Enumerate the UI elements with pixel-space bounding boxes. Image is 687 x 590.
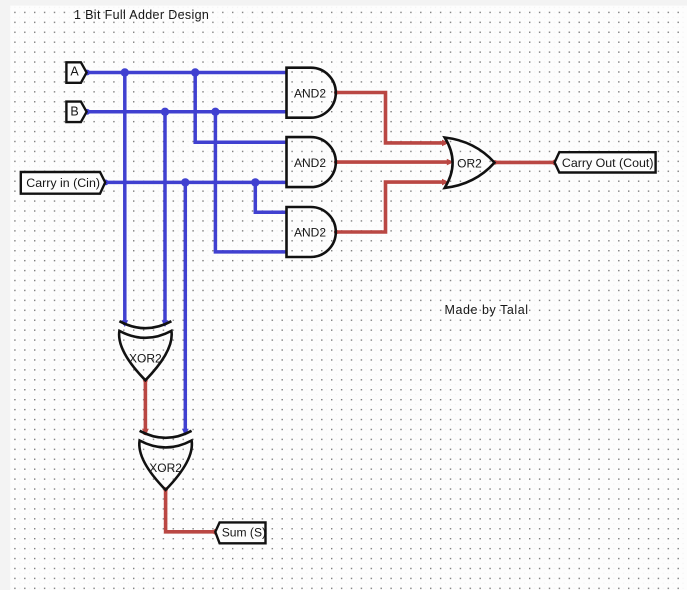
output flag Sum (S) bbox=[215, 522, 266, 543]
and-gate U2 AND2 (middle) bbox=[287, 137, 336, 187]
pin dot at flag Sum connection bbox=[213, 529, 219, 535]
svg-text:AND2: AND2 bbox=[294, 156, 326, 170]
and-gate U1 AND2 (top) bbox=[287, 68, 336, 118]
output flag Carry Out (Cout) bbox=[555, 152, 656, 172]
xor-gate U5 XOR2 (upper, pointing down) bbox=[119, 321, 172, 380]
pin dot at flag A connection bbox=[84, 70, 90, 76]
wire net A branch: junction down and right to AND2 gate U2 input 1 bbox=[195, 73, 286, 143]
arrowhead OR2 U4 input 1 bbox=[442, 140, 449, 147]
svg-text:XOR2: XOR2 bbox=[129, 352, 162, 366]
arrowhead XOR2 U5 input 1 bbox=[121, 320, 128, 327]
wire net Cin horizontal: flag Carry in to AND2 gate U2 input 2 bbox=[105, 181, 286, 185]
arrowhead XOR2 U5 input 2 bbox=[162, 320, 169, 327]
wire net B branch: junction to XOR2 gate U5 input 2 bbox=[163, 112, 167, 325]
pin dot at U3 output bbox=[334, 230, 339, 235]
arrowhead OR2 U4 input 2 bbox=[447, 159, 454, 166]
pin dot at U1 output bbox=[334, 90, 339, 95]
pin dot at flag Carry in connection bbox=[103, 180, 109, 186]
or-gate U4 OR2 bbox=[445, 138, 495, 188]
pin dot at U4 output bbox=[493, 160, 498, 165]
svg-text:1 Bit Full Adder Design: 1 Bit Full Adder Design bbox=[74, 8, 209, 22]
pin dot at U2 output bbox=[334, 160, 339, 165]
junction net Cin at vertical to XOR2 U6 bbox=[181, 178, 189, 186]
wire U2 AND2 output to OR2 U4 input 2 bbox=[336, 160, 451, 164]
wire XOR2 U6 output to flag Sum (S) bbox=[166, 489, 216, 532]
wire U3 AND2 output to OR2 U4 input 3 bbox=[336, 182, 446, 232]
junction net B at vertical to AND2 U3 bbox=[211, 108, 219, 116]
arrowhead XOR2 U6 input 2 bbox=[182, 429, 189, 436]
wire U1 AND2 output to OR2 U4 input 1 bbox=[336, 93, 446, 143]
svg-text:AND2: AND2 bbox=[294, 226, 326, 240]
arrowhead OR2 U4 input 3 bbox=[442, 179, 449, 186]
wire net B horizontal: flag B to AND2 gate U1 input 2 bbox=[87, 110, 287, 114]
xor-gate U6 XOR2 (lower, pointing down) bbox=[139, 431, 192, 490]
pin dot at flag Carry Out connection bbox=[552, 160, 558, 166]
wire OR2 U4 output to flag Carry Out (Cout) bbox=[495, 161, 555, 165]
input flag B bbox=[66, 102, 86, 123]
svg-text:A: A bbox=[70, 64, 79, 78]
and-gate U3 AND2 (bottom) bbox=[287, 207, 336, 257]
svg-text:OR2: OR2 bbox=[457, 156, 482, 170]
svg-text:B: B bbox=[70, 105, 78, 119]
svg-text:AND2: AND2 bbox=[294, 86, 326, 100]
pin dot at U6 output bbox=[163, 487, 168, 492]
wire net B branch: junction down and right to AND2 gate U3 input 2 bbox=[215, 112, 286, 252]
wire net Cin branch: junction down and right to AND2 gate U3 input 1 bbox=[255, 182, 286, 212]
wire XOR2 U5 output to XOR2 U6 input 1 bbox=[144, 380, 148, 435]
input flag Carry in (Cin) bbox=[21, 172, 105, 194]
svg-text:Carry in (Cin): Carry in (Cin) bbox=[26, 176, 100, 190]
wire net A horizontal: flag A to AND2 gate U1 input 1 bbox=[87, 71, 287, 75]
svg-text:Sum (S): Sum (S) bbox=[222, 526, 266, 540]
junction net B at vertical to XOR bbox=[161, 108, 169, 116]
pin dot at flag B connection bbox=[84, 109, 90, 115]
svg-text:Carry Out (Cout): Carry Out (Cout) bbox=[562, 156, 654, 170]
wire net Cin branch: junction down to XOR2 gate U6 input 2 bbox=[184, 182, 188, 434]
pin dot at U5 output bbox=[143, 378, 148, 383]
arrowhead XOR2 U6 input 1 bbox=[142, 429, 149, 436]
svg-text:Made by Talal: Made by Talal bbox=[445, 303, 529, 317]
wire net A branch: junction to XOR2 gate U5 input 1 bbox=[123, 73, 127, 326]
input flag A bbox=[66, 62, 86, 83]
junction net Cin at vertical to AND2 U3 bbox=[251, 178, 259, 186]
junction net A at vertical to XOR bbox=[121, 68, 129, 76]
svg-text:XOR2: XOR2 bbox=[149, 461, 182, 475]
junction net A at vertical to AND2 U2 bbox=[191, 68, 199, 76]
